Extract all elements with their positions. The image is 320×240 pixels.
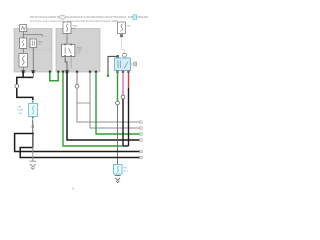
black wire 123 down [122, 99, 124, 146]
svg-text:DRL: DRL [123, 167, 128, 169]
terminal pin green long [62, 71, 64, 73]
wire relay pin 2 to panel bottom [70, 57, 72, 68]
DRL relay bulb pin [123, 53, 127, 57]
junction node A [32, 133, 34, 135]
green wire 96 + bus y134 [96, 73, 140, 134]
svg-text:DRL: DRL [17, 106, 22, 108]
svg-text:RLY: RLY [76, 53, 80, 55]
pink wire DRL pin 2 [122, 73, 124, 95]
headlight control relay [62, 44, 75, 57]
fuse taillight cyan box [29, 104, 38, 117]
thick black path B to bus y157.5 [20, 134, 139, 158]
connector diamond [32, 125, 34, 127]
terminal pin gray 90 [89, 71, 91, 73]
terminal pin green U right [57, 71, 59, 73]
splice circle 117 [116, 101, 120, 105]
terminal pin 2 panel 1 [31, 71, 35, 74]
terminal pin feed wire [107, 75, 109, 77]
splice circle 77 [75, 84, 79, 88]
splice connector circle left [15, 84, 19, 88]
wire relay pin to panel bottom [65, 57, 67, 71]
svg-text:NO.2: NO.2 [123, 171, 129, 173]
wire panel1 pin2 short stub [32, 73, 34, 77]
thick black wire loop left lower [17, 88, 33, 100]
black wire 128 down [128, 88, 130, 146]
green U jumper wire [50, 73, 58, 81]
black U bottom joining green bus [123, 145, 129, 147]
terminal arrow into fuse box [32, 101, 34, 104]
svg-text:From Power Source System Circu: From Power Source System Circuit - Toyot… [30, 20, 118, 23]
connector tag y151 [140, 150, 143, 153]
fusible link FL MAIN [20, 25, 27, 32]
thick black path A to bus y151.5 [15, 134, 140, 152]
connector tag y140 [140, 136, 143, 141]
terminal pin gray 77 [76, 71, 78, 73]
junction block panel 1 [14, 29, 52, 73]
gray wire 77 lower + bus y122 [77, 88, 140, 122]
terminal pin 1 panel 1 [21, 71, 25, 74]
connector tag y122 [140, 118, 143, 123]
circuit breaker 2 [19, 54, 28, 68]
terminal pin black thick [65, 71, 69, 74]
DRL relay side stub [131, 63, 135, 65]
green wire 63 + bus y146 [63, 73, 122, 146]
svg-text:7.5A: 7.5A [17, 112, 22, 115]
gray horizontal link y103 [77, 102, 90, 104]
headlight relay coil [30, 39, 37, 48]
DRL relay feed wire [108, 56, 118, 69]
circuit breaker CB MAIN [20, 38, 27, 48]
header logo oval [60, 15, 66, 19]
splice circle 123 [121, 95, 125, 99]
wire fuse DRL down [122, 37, 125, 53]
wire breaker 2 to terminal [22, 67, 24, 71]
DRL relay side tag [134, 62, 137, 66]
wire fusible link to breaker [22, 32, 24, 39]
DRL relay bottom pin squares [116, 70, 118, 73]
connector tag y157 [140, 156, 143, 159]
red wire DRL pin 3 [128, 73, 130, 88]
wire fuse box down [32, 120, 34, 134]
fuse ECU-B cyan box right [114, 165, 123, 175]
svg-text:···: ··· [14, 58, 16, 60]
black thick wire 67 + bus y140 [67, 73, 140, 140]
ground symbol right [115, 176, 121, 183]
thick black wire loop left [17, 73, 33, 84]
terminal arrow below fuse box [32, 117, 34, 120]
svg-text:- 8 -: - 8 - [71, 187, 76, 191]
daytime running light relay [115, 58, 131, 71]
gray wire 90 + bus y128 [90, 73, 140, 128]
svg-text:2000 TOYOTA CELICA WIRING DIAG: 2000 TOYOTA CELICA WIRING DIAGRAM 2ZZ-GE… [30, 16, 148, 19]
gray wire 77 vertical [76, 73, 78, 84]
fuse DRL right [118, 22, 126, 34]
header cyan file icon [133, 15, 137, 20]
svg-text:RLY: RLY [38, 44, 42, 46]
wire branch to relay sub-block [23, 35, 42, 37]
connector tag y134 [140, 130, 143, 135]
terminal pin green 96 [95, 71, 97, 73]
DRL relay top pin square [116, 55, 119, 58]
junction block panel 2 [56, 29, 100, 73]
wire fuse to relay panel 2 [66, 34, 68, 45]
connector below fuse DRL [120, 34, 123, 37]
terminal pin 3 panel 1 [49, 71, 51, 73]
fuse HEAD panel 2 [63, 22, 71, 34]
ground symbol left [29, 161, 36, 169]
wire relay to terminal [32, 48, 34, 72]
relay sub-block outline [29, 37, 51, 50]
connector tag y128 [140, 124, 143, 129]
gray ground wire left [32, 134, 34, 161]
green wire DRL pin 1 [117, 73, 119, 101]
svg-text:· ··: · ·· [15, 23, 18, 25]
svg-text:FUSE: FUSE [17, 110, 23, 112]
wire breaker to breaker 2 [22, 48, 24, 53]
gray wire 117 down to fuse [117, 105, 119, 165]
